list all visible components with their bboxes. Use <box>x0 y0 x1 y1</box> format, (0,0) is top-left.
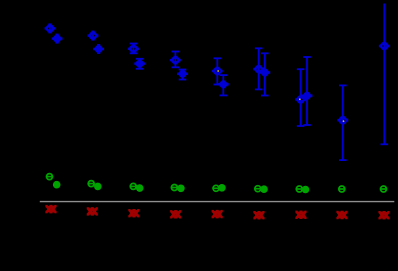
blue series A point 3 errorbar <box>129 44 138 54</box>
blue series B point 2 errorbar <box>94 45 103 53</box>
red point 2 pair of x markers <box>87 207 98 215</box>
red point 8 pair of x markers <box>336 211 347 219</box>
blue series A point 8 errorbar <box>338 85 347 160</box>
green series B point 1 filled circle <box>53 181 61 189</box>
green series B point 3 filled circle <box>136 184 144 192</box>
green series B point 4 filled circle <box>177 185 185 193</box>
blue series B point 1 errorbar <box>53 35 62 43</box>
blue series B point 1 filled diamond marker <box>53 34 62 43</box>
blue series B point 4 errorbar <box>178 70 187 80</box>
yellow dot inside blue diamond A8 <box>343 120 345 122</box>
blue series B point 4 filled diamond marker <box>178 69 187 78</box>
blue series A point 7 open diamond marker <box>296 95 306 105</box>
blue series A point 2 open diamond marker <box>88 31 98 41</box>
blue series B point 5 filled diamond marker <box>219 80 228 89</box>
green series A point 9 open circle with dash <box>380 186 387 192</box>
green series B point 2 filled circle <box>94 183 102 191</box>
green series A point 7 open circle with dash <box>296 186 303 192</box>
blue series A point 4 errorbar <box>171 52 180 68</box>
blue series B point 2 filled diamond marker <box>94 44 103 53</box>
blue series A point 3 open diamond marker <box>129 44 139 54</box>
red point 6 pair of x markers <box>253 211 264 219</box>
blue series B point 6 filled diamond marker <box>260 68 269 77</box>
green series A point 1 open circle with dash <box>46 174 53 180</box>
green series A point 8 open circle with dash <box>338 186 345 192</box>
blue series A point 4 open diamond marker <box>171 55 181 65</box>
blue series B point 3 errorbar <box>135 59 144 69</box>
red point 5 pair of x markers <box>212 210 223 218</box>
blue series B point 6 errorbar <box>260 53 269 95</box>
yellow dot inside blue diamond A5 <box>217 70 219 72</box>
blue series A point 7 errorbar <box>296 69 305 126</box>
red point 1 pair of x markers <box>45 205 56 213</box>
yellow dot inside blue diamond A7 <box>299 98 301 100</box>
blue series A point 6 open diamond marker <box>254 64 264 74</box>
blue series A point 8 open diamond marker <box>338 115 348 125</box>
blue series A point 5 open diamond marker <box>212 66 222 76</box>
red point 3 pair of x markers <box>128 209 139 217</box>
green series B point 5 filled circle <box>218 184 226 192</box>
green series A point 2 open circle with dash <box>88 181 95 187</box>
blue series A point 2 errorbar <box>89 32 98 40</box>
blue series B point 5 errorbar <box>219 75 228 95</box>
green series A point 4 open circle with dash <box>171 185 178 191</box>
red point 9 pair of x markers <box>378 211 389 219</box>
red point 7 pair of x markers <box>295 211 306 219</box>
green series A point 6 open circle with dash <box>254 186 261 192</box>
blue series A point 1 errorbar <box>46 24 55 32</box>
green series B point 6 filled circle <box>260 185 268 193</box>
blue series A point 9 open diamond marker <box>379 41 389 51</box>
red point 4 pair of x markers <box>170 210 181 218</box>
blue series A point 6 errorbar <box>254 48 263 89</box>
blue series B point 7 filled diamond marker <box>302 91 311 100</box>
green series A point 3 open circle with dash <box>130 183 137 189</box>
green series A point 5 open circle with dash <box>212 185 219 191</box>
green series B point 7 filled circle <box>302 186 310 194</box>
blue series B point 3 filled diamond marker <box>135 59 144 68</box>
blue series B point 7 errorbar <box>303 57 312 125</box>
zero baseline gray line <box>40 201 395 203</box>
blue series A point 9 errorbar <box>380 4 389 145</box>
blue series A point 1 open diamond marker <box>45 24 55 34</box>
blue series A point 5 errorbar <box>213 58 222 84</box>
